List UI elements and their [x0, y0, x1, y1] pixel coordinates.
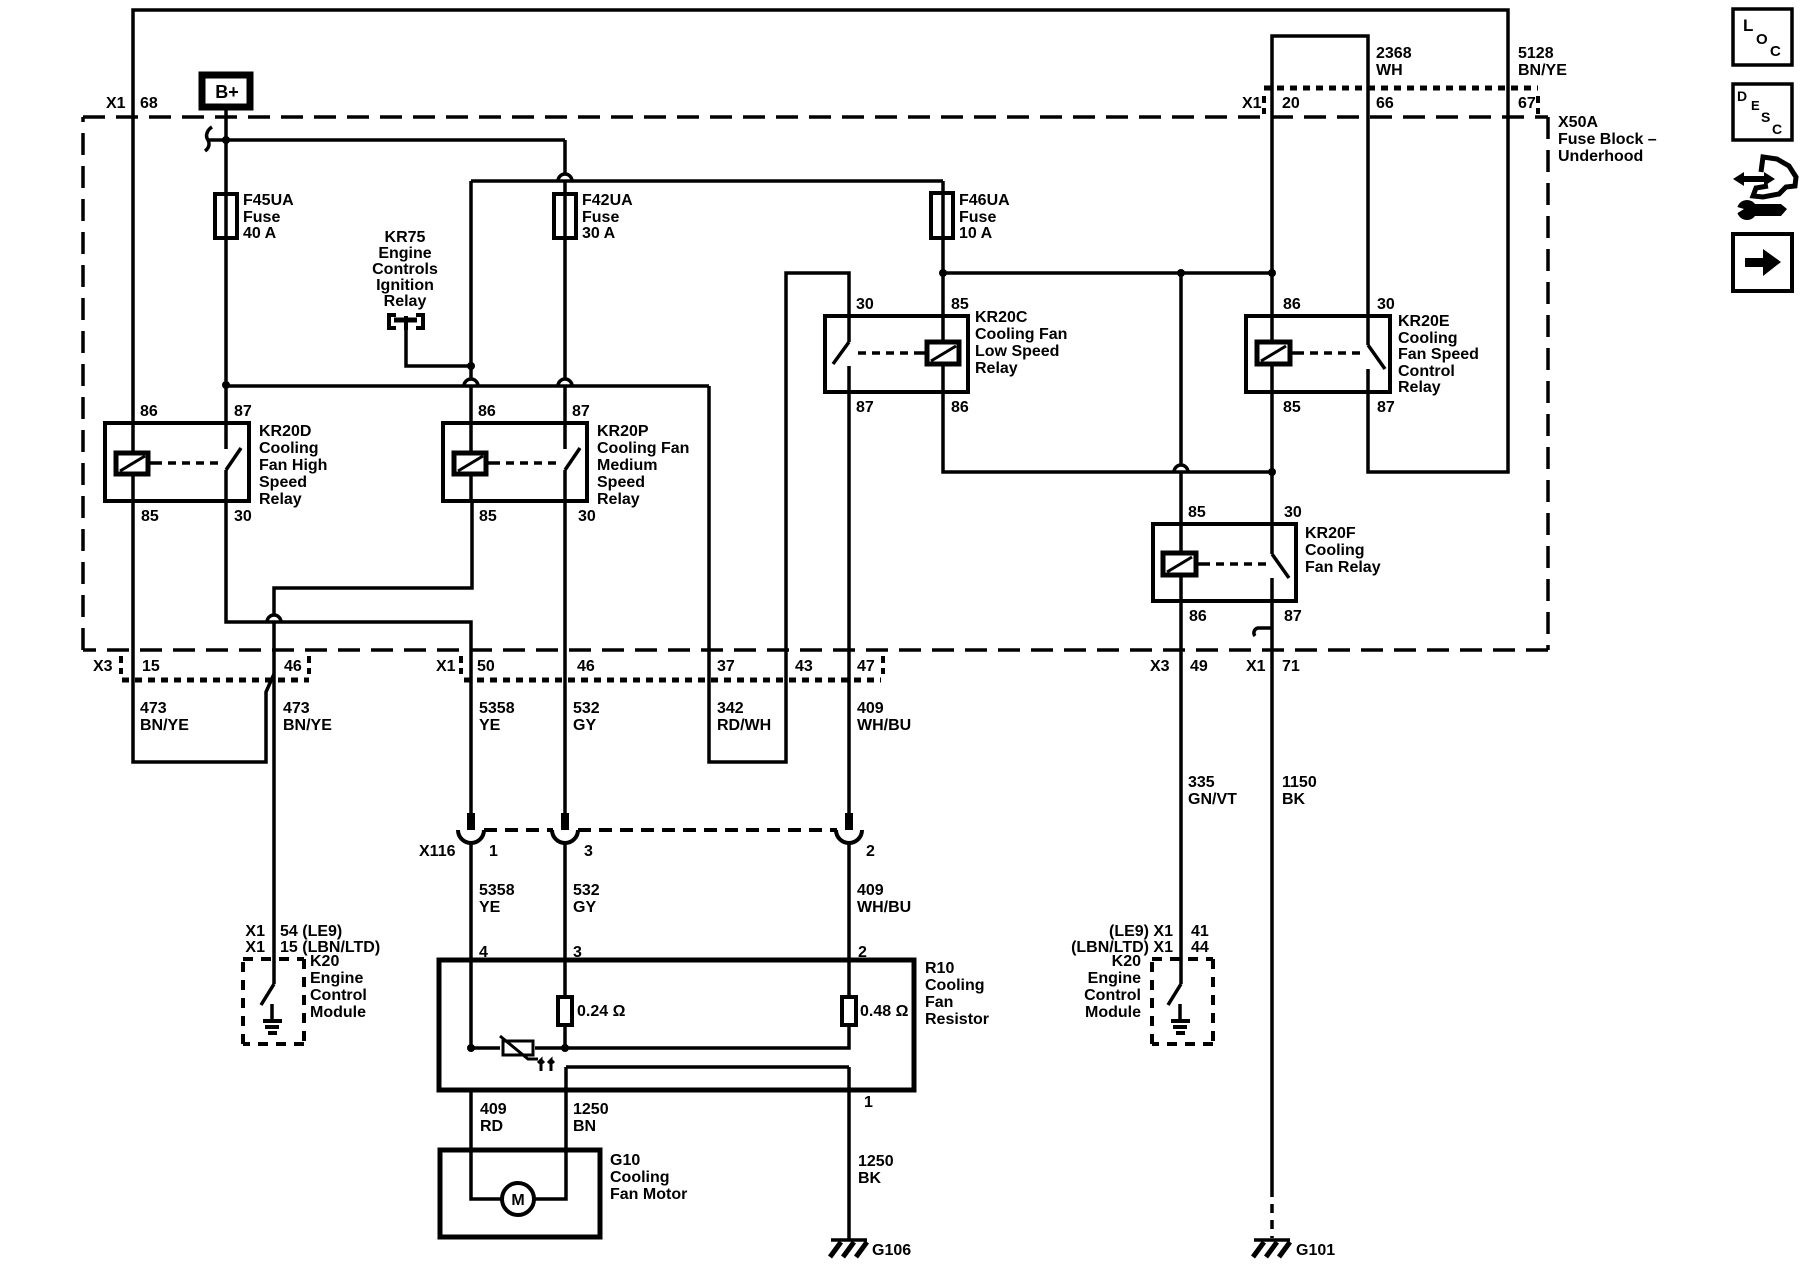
relay KR75 contact symbol: [389, 315, 423, 330]
svg-text:Engine: Engine: [378, 245, 431, 262]
svg-text:Cooling: Cooling: [610, 1169, 670, 1186]
svg-text:0.24 Ω: 0.24 Ω: [577, 1003, 626, 1020]
svg-text:B+: B+: [215, 82, 239, 102]
svg-text:KR20P: KR20P: [597, 423, 649, 440]
svg-text:86: 86: [478, 403, 496, 420]
svg-text:87: 87: [572, 403, 590, 420]
resistor 0.48 ohm: [842, 997, 856, 1025]
svg-text:Resistor: Resistor: [925, 1011, 989, 1028]
ground G101 chassis symbol: [1253, 1240, 1290, 1257]
svg-text:M: M: [511, 1192, 524, 1209]
wire motor return 1250 BN: [534, 1067, 566, 1199]
svg-text:86: 86: [1283, 296, 1301, 313]
svg-text:Cooling: Cooling: [1305, 542, 1365, 559]
svg-text:Cooling Fan: Cooling Fan: [597, 440, 689, 457]
svg-text:409: 409: [857, 882, 884, 899]
svg-text:409: 409: [857, 700, 884, 717]
icon goto arrow: [1745, 249, 1781, 276]
svg-text:O: O: [1756, 31, 1768, 48]
fuse F45UA 40A: [215, 194, 237, 238]
svg-text:BN/YE: BN/YE: [140, 717, 189, 734]
svg-text:Fuse: Fuse: [959, 209, 996, 226]
svg-text:F42UA: F42UA: [582, 192, 633, 209]
svg-text:Low Speed: Low Speed: [975, 343, 1059, 360]
wire R10 interior motor return jumper: [566, 1065, 849, 1069]
svg-text:Medium: Medium: [597, 457, 657, 474]
K20 left ground symbol: [263, 1004, 282, 1033]
svg-text:X50A: X50A: [1558, 114, 1598, 131]
svg-text:Cooling: Cooling: [1398, 330, 1458, 347]
svg-text:X116: X116: [419, 843, 456, 860]
svg-text:66: 66: [1376, 95, 1394, 112]
wire KR20F pin 86 to 335 GN/VT to K20 ECM right: [1179, 601, 1183, 984]
svg-text:RD: RD: [480, 1118, 503, 1135]
fuse F42UA 30A: [554, 194, 576, 238]
wire F46UA output down to KR20C pin 85: [941, 238, 945, 316]
svg-text:Underhood: Underhood: [1558, 148, 1643, 165]
svg-text:Control: Control: [1398, 363, 1455, 380]
wire KR75 relay output horizontal: [406, 330, 471, 366]
splice curl on KR20F pin 87 wire: [1254, 628, 1272, 636]
svg-text:85: 85: [1283, 399, 1301, 416]
svg-text:46: 46: [284, 658, 302, 675]
connector X3 bottom left bracket: [119, 656, 123, 674]
svg-text:54 (LE9): 54 (LE9): [280, 923, 342, 940]
svg-text:85: 85: [1188, 504, 1206, 521]
svg-text:335: 335: [1188, 774, 1215, 791]
icon goto box: [1733, 234, 1792, 291]
svg-text:532: 532: [573, 700, 600, 717]
wire horizontal y178 feed to F46UA: [471, 181, 943, 194]
connector X1 bottom dotted line (pins 50 46 37 43 47): [464, 678, 881, 683]
svg-text:C: C: [1772, 121, 1782, 137]
svg-text:BN/YE: BN/YE: [283, 717, 332, 734]
svg-text:Relay: Relay: [259, 491, 302, 508]
icon double arrow: [1733, 172, 1775, 186]
svg-text:85: 85: [479, 508, 497, 525]
svg-text:85: 85: [951, 296, 969, 313]
svg-text:Cooling: Cooling: [925, 977, 985, 994]
wire F42UA drop from B+ bus: [558, 140, 572, 194]
svg-text:BK: BK: [1282, 791, 1306, 808]
splice curl at left end of B+ horizontal: [205, 127, 212, 151]
svg-text:30: 30: [1284, 504, 1302, 521]
svg-text:532: 532: [573, 882, 600, 899]
svg-text:Fan High: Fan High: [259, 457, 327, 474]
svg-text:85: 85: [141, 508, 159, 525]
svg-text:X3: X3: [93, 658, 113, 675]
svg-text:2368: 2368: [1376, 45, 1412, 62]
wire dashed lower part of G101 wire: [1270, 1188, 1274, 1238]
svg-text:K20: K20: [1112, 953, 1141, 970]
wire R10 interior 0.24 ohm branch: [563, 960, 567, 1048]
svg-text:Fuse Block –: Fuse Block –: [1558, 131, 1657, 148]
svg-text:40 A: 40 A: [243, 225, 277, 242]
connector X1 top right bracket: [1536, 96, 1540, 114]
svg-text:G10: G10: [610, 1152, 640, 1169]
motor G10 box: [440, 1150, 600, 1237]
thermistor arrows: [538, 1060, 554, 1071]
svg-text:473: 473: [283, 700, 310, 717]
connector X1 top dotted line (pins 20 66 67): [1264, 86, 1538, 91]
thermistor symbol: [500, 1036, 538, 1059]
wire KR20F pin 87 to 1150 BK to G101: [1270, 601, 1274, 1188]
module K20 ECM left dashed box: [243, 959, 304, 1044]
wire KR20F pin 85 coil feed drop: [1174, 273, 1188, 524]
wire X116-2 to R10 pin 2: [847, 843, 851, 960]
svg-text:Engine: Engine: [310, 970, 363, 987]
relay KR20C Cooling Fan Low Speed Relay: [825, 316, 968, 392]
motor circle: [502, 1183, 534, 1215]
svg-text:409: 409: [480, 1101, 507, 1118]
wire KR20P pin 85 to 473 BN/YE down to K20 ECM: [267, 501, 472, 984]
svg-text:X1: X1: [436, 658, 456, 675]
svg-text:Fuse: Fuse: [582, 209, 619, 226]
svg-text:BN: BN: [573, 1118, 596, 1135]
relay KR20E Cooling Fan Speed Control Relay: [1246, 316, 1390, 392]
wire KR20E pin 85 down to KR20F pin 30: [1270, 392, 1274, 524]
wire 342 RD/WH loop connectors 37-43 to KR20C pin 30: [709, 273, 849, 762]
svg-text:WH/BU: WH/BU: [857, 717, 911, 734]
svg-text:Cooling: Cooling: [259, 440, 319, 457]
junction dot KR75 output node: [467, 362, 475, 370]
relay KR20P Cooling Fan Medium Speed Relay: [443, 423, 587, 501]
svg-text:2: 2: [866, 843, 875, 860]
connector X1 bottom right bracket: [881, 656, 885, 674]
svg-text:10 A: 10 A: [959, 225, 993, 242]
svg-text:R10: R10: [925, 960, 954, 977]
svg-text:Fan Motor: Fan Motor: [610, 1186, 687, 1203]
wire top B+ feed bus (5128 BN/YE net): [133, 10, 1508, 472]
svg-text:Relay: Relay: [597, 491, 640, 508]
wire thermistor to junction: [535, 1046, 565, 1050]
svg-text:1250: 1250: [858, 1153, 894, 1170]
K20 left internal switch: [261, 984, 274, 1005]
junction dot at x1272 y472: [1268, 468, 1276, 476]
module K20 ECM right dashed box: [1152, 959, 1213, 1044]
svg-text:67: 67: [1518, 95, 1536, 112]
svg-text:Fan: Fan: [925, 994, 953, 1011]
svg-text:68: 68: [140, 95, 158, 112]
svg-text:5358: 5358: [479, 882, 515, 899]
relay KR20D Cooling Fan High Speed Relay: [105, 423, 249, 501]
svg-text:G101: G101: [1296, 1242, 1335, 1259]
svg-text:71: 71: [1282, 658, 1300, 675]
svg-text:Fan Relay: Fan Relay: [1305, 559, 1381, 576]
svg-text:30: 30: [234, 508, 252, 525]
svg-text:X1: X1: [245, 923, 265, 940]
junction dot R10 thermistor left: [467, 1044, 475, 1052]
svg-text:1: 1: [489, 843, 498, 860]
svg-text:RD/WH: RD/WH: [717, 717, 771, 734]
svg-text:D: D: [1737, 88, 1747, 104]
svg-text:Controls: Controls: [372, 261, 438, 278]
wire KR20C pin 86 to KR20E pin 85 node: [943, 392, 1272, 472]
wire KR20P pin 30 to connector X1-46 and X116-3: [563, 501, 567, 820]
svg-text:47: 47: [857, 658, 875, 675]
svg-text:Fan Speed: Fan Speed: [1398, 346, 1479, 363]
svg-text:46: 46: [577, 658, 595, 675]
svg-text:C: C: [1770, 43, 1781, 60]
svg-text:KR20F: KR20F: [1305, 525, 1356, 542]
svg-text:86: 86: [1189, 608, 1207, 625]
wire horizontal y273 F46UA output to KR20E/KR20F coils: [943, 271, 1272, 275]
svg-text:5358: 5358: [479, 700, 515, 717]
junction dot F46UA output node: [939, 269, 947, 277]
svg-text:X1: X1: [1242, 95, 1262, 112]
connector X1 top left bracket: [1262, 96, 1266, 114]
svg-text:Relay: Relay: [1398, 379, 1441, 396]
svg-text:Relay: Relay: [975, 360, 1018, 377]
wire X116-1 to R10 pin 4: [469, 843, 473, 960]
svg-text:Module: Module: [310, 1004, 366, 1021]
wire hop of F42UA-KR20P87 drop over y386: [558, 238, 572, 423]
svg-text:K20: K20: [310, 953, 339, 970]
connector X116 pin 1 terminal: [467, 813, 475, 830]
svg-text:43: 43: [795, 658, 813, 675]
connector X1 bottom left bracket: [459, 656, 463, 674]
wire B+ junction horizontal to F42UA: [207, 138, 565, 142]
svg-text:KR20C: KR20C: [975, 309, 1028, 326]
svg-text:Relay: Relay: [384, 293, 427, 310]
svg-text:X1: X1: [106, 95, 126, 112]
svg-text:49: 49: [1190, 658, 1208, 675]
svg-text:3: 3: [584, 843, 593, 860]
connector X3 bottom dotted line (pins 15 46): [122, 678, 309, 683]
svg-text:KR75: KR75: [385, 229, 426, 246]
svg-text:E: E: [1751, 98, 1760, 113]
wire X1 pins 20-66 bridge to KR20E pins 86 and 30: [1272, 36, 1368, 316]
svg-text:KR20D: KR20D: [259, 423, 311, 440]
svg-text:20: 20: [1282, 95, 1300, 112]
resistor assembly R10 box: [439, 960, 914, 1090]
svg-text:87: 87: [234, 403, 252, 420]
svg-text:86: 86: [140, 403, 158, 420]
connector X116 pin 2 terminal: [845, 813, 853, 830]
svg-text:3: 3: [573, 944, 582, 961]
junction dot B+ node: [222, 136, 230, 144]
K20 right internal switch: [1168, 984, 1181, 1005]
wire motor feed 409 RD: [471, 1090, 502, 1199]
icon DESC box: [1733, 84, 1792, 140]
svg-text:30: 30: [856, 296, 874, 313]
svg-text:87: 87: [1284, 608, 1302, 625]
svg-text:30 A: 30 A: [582, 225, 616, 242]
fuse block X50A dashed box: [83, 115, 1548, 119]
svg-text:87: 87: [856, 399, 874, 416]
junction dot at x1181 on y273: [1177, 269, 1185, 277]
K20 right ground symbol: [1171, 1004, 1190, 1033]
svg-text:Speed: Speed: [259, 474, 307, 491]
svg-text:Module: Module: [1085, 1004, 1141, 1021]
svg-text:F45UA: F45UA: [243, 192, 294, 209]
B+ battery symbol: [202, 75, 250, 107]
wire KR20D pin 30 to connector X1-50 and X116-1: [226, 501, 471, 820]
wire KR75 node vertical to KR20P pin 86: [464, 181, 478, 423]
svg-text:L: L: [1743, 16, 1753, 35]
wire KR20D pin 85 jog to 473 net: [133, 501, 274, 762]
svg-text:KR20E: KR20E: [1398, 313, 1450, 330]
svg-text:BK: BK: [858, 1170, 882, 1187]
wire X116-3 to R10 pin 3: [563, 843, 567, 960]
wire R10 pin 4 inside to thermistor: [471, 960, 500, 1048]
svg-text:342: 342: [717, 700, 744, 717]
svg-text:30: 30: [578, 508, 596, 525]
resistor 0.24 ohm: [558, 997, 572, 1025]
icon outline shape: [1753, 157, 1796, 197]
svg-text:Ignition: Ignition: [376, 277, 434, 294]
svg-text:S: S: [1761, 109, 1770, 125]
svg-text:G106: G106: [872, 1242, 911, 1259]
svg-text:GY: GY: [573, 899, 596, 916]
svg-text:4: 4: [479, 944, 488, 961]
svg-text:Fuse: Fuse: [243, 209, 280, 226]
svg-text:30: 30: [1377, 296, 1395, 313]
svg-text:YE: YE: [479, 899, 501, 916]
ground G106 chassis symbol: [830, 1240, 867, 1257]
svg-text:41: 41: [1191, 923, 1209, 940]
svg-text:GY: GY: [573, 717, 596, 734]
svg-text:Engine: Engine: [1088, 970, 1141, 987]
junction dot at x1272 on y273: [1268, 269, 1276, 277]
svg-text:87: 87: [1377, 399, 1395, 416]
fuse F46UA 10A: [931, 193, 953, 238]
svg-text:44: 44: [1191, 939, 1209, 956]
svg-text:Control: Control: [310, 987, 367, 1004]
svg-text:0.48 Ω: 0.48 Ω: [860, 1003, 909, 1020]
svg-text:YE: YE: [479, 717, 501, 734]
svg-text:WH: WH: [1376, 62, 1403, 79]
svg-text:15: 15: [142, 658, 160, 675]
svg-text:Control: Control: [1084, 987, 1141, 1004]
svg-text:Speed: Speed: [597, 474, 645, 491]
svg-text:(LE9) X1: (LE9) X1: [1109, 923, 1173, 940]
wire B+ to fuse F45UA: [224, 109, 228, 194]
svg-text:GN/VT: GN/VT: [1188, 791, 1237, 808]
svg-text:86: 86: [951, 399, 969, 416]
wire horizontal y386 from F45UA output to connector 37 drop: [226, 384, 709, 388]
svg-text:37: 37: [717, 658, 735, 675]
svg-text:50: 50: [477, 658, 495, 675]
connector X116 dotted line: [484, 828, 553, 832]
svg-text:WH/BU: WH/BU: [857, 899, 911, 916]
svg-text:473: 473: [140, 700, 167, 717]
svg-text:1150: 1150: [1282, 774, 1317, 791]
svg-text:F46UA: F46UA: [959, 192, 1010, 209]
wire F45UA output down to KR20D pin 87: [224, 238, 228, 423]
wire KR20C pin 87 down to X116-2: [847, 392, 851, 820]
svg-text:2: 2: [858, 944, 867, 961]
svg-text:BN/YE: BN/YE: [1518, 62, 1567, 79]
junction dot R10 resistor bottoms: [561, 1044, 569, 1052]
junction dot on F45UA output at y385: [222, 381, 230, 389]
svg-text:X1: X1: [245, 939, 265, 956]
icon LOC box: [1733, 9, 1792, 65]
svg-text:1: 1: [864, 1094, 873, 1111]
svg-text:5128: 5128: [1518, 45, 1554, 62]
svg-text:X3: X3: [1150, 658, 1170, 675]
svg-text:Cooling Fan: Cooling Fan: [975, 326, 1067, 343]
svg-text:X1: X1: [1246, 658, 1266, 675]
connector X3 bottom right bracket: [307, 656, 311, 674]
relay KR20F Cooling Fan Relay: [1153, 524, 1296, 601]
icon wrench: [1734, 200, 1787, 220]
wire R10 pin 1 to G106 ground: [847, 1067, 851, 1240]
svg-text:1250: 1250: [573, 1101, 609, 1118]
wire R10 interior 0.48 ohm branch: [565, 960, 849, 1048]
connector X116 pin 3 terminal: [561, 813, 569, 830]
